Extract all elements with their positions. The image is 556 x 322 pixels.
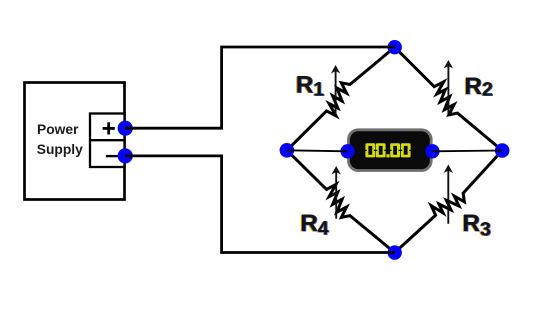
svg-text:Supply: Supply xyxy=(37,142,83,157)
svg-text:Power: Power xyxy=(37,122,79,137)
